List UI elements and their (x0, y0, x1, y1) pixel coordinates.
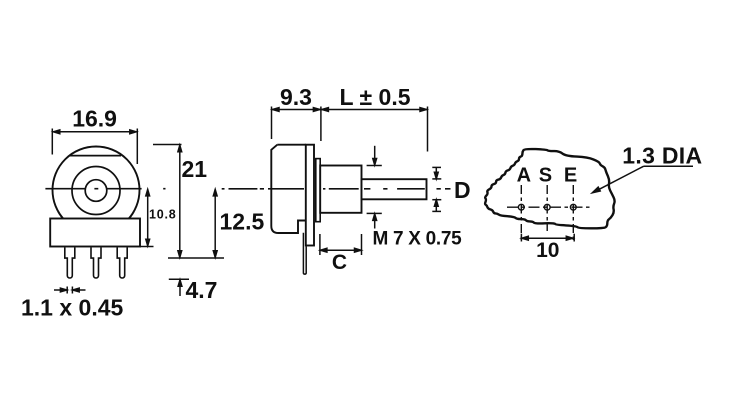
svg-text:S: S (539, 164, 552, 186)
dimension 4.7 (169, 279, 189, 296)
dimension 9.3 (272, 107, 321, 142)
label 16.9 (72, 106, 117, 132)
front view pin 3 (117, 248, 127, 279)
label 21 (182, 156, 208, 182)
label 1.3 DIA (622, 143, 702, 169)
dimension 10.8 (140, 189, 154, 246)
rear view vertical centerline A (520, 185, 522, 243)
side view threaded bushing (320, 166, 361, 213)
rear view vertical centerline E (572, 185, 574, 243)
front view top chord (70, 155, 121, 157)
svg-text:L ± 0.5: L ± 0.5 (339, 84, 410, 110)
rear view hole E (570, 204, 576, 210)
label 9.3 (280, 84, 312, 110)
svg-text:A: A (517, 164, 531, 186)
M7 bottom pointer (367, 213, 382, 228)
svg-text:D: D (454, 177, 471, 203)
label A (517, 164, 531, 186)
dimension 1.1 x 0.45 ticks and arrows (54, 287, 86, 294)
side view centerline (222, 188, 451, 190)
svg-text:1.1 x 0.45: 1.1 x 0.45 (21, 294, 124, 320)
svg-text:10: 10 (536, 239, 559, 262)
svg-text:9.3: 9.3 (280, 84, 312, 110)
label D (454, 177, 471, 203)
label S (539, 164, 552, 186)
rear view horizontal centerline (507, 206, 590, 208)
svg-text:M 7 X 0.75: M 7 X 0.75 (373, 228, 463, 249)
svg-text:10.8: 10.8 (149, 208, 177, 222)
svg-text:E: E (564, 164, 577, 186)
label M 7 X 0.75 (373, 228, 463, 249)
dimension L ± 0.5 (321, 107, 428, 152)
front view middle circle (72, 167, 120, 215)
side view flange plate (306, 145, 314, 246)
front view centerline (45, 188, 165, 190)
front view base bracket (50, 212, 140, 247)
label 10.8 (149, 208, 177, 222)
side view body (271, 145, 306, 233)
dimension 16.9 (52, 129, 137, 165)
rear view hole S (544, 204, 550, 210)
front view inner circle (85, 180, 107, 202)
dimension 21 (153, 145, 182, 259)
rear view hole A (518, 204, 524, 210)
svg-text:1.3 DIA: 1.3 DIA (622, 143, 702, 169)
M7 top pointer (367, 146, 382, 166)
svg-text:21: 21 (182, 156, 208, 182)
label E (564, 164, 577, 186)
svg-text:12.5: 12.5 (220, 208, 265, 234)
svg-text:C: C (332, 251, 347, 274)
svg-text:4.7: 4.7 (186, 277, 218, 303)
label 10 (536, 239, 559, 262)
label 4.7 (186, 277, 218, 303)
bottom extension line for 21 and 12.5 (168, 257, 224, 259)
dimension D (432, 167, 441, 211)
dimension C (320, 234, 362, 255)
front view body circle (53, 147, 140, 234)
front view pin 2 (91, 248, 101, 279)
label 1.1 x 0.45 (21, 294, 124, 320)
side view shaft (362, 179, 427, 199)
leader 1.3 DIA (592, 166, 693, 193)
dimension 10 (521, 234, 574, 242)
side view solder lug (303, 233, 306, 274)
rear view vertical centerline S (546, 185, 548, 231)
label C (332, 251, 347, 274)
dimension 12.5 (213, 189, 217, 258)
rear view blob outline (485, 149, 614, 228)
front view pin 1 (65, 248, 75, 279)
side view step plate (316, 159, 320, 222)
label L ± 0.5 (339, 84, 410, 110)
svg-text:16.9: 16.9 (72, 106, 117, 132)
label 12.5 (220, 208, 265, 234)
